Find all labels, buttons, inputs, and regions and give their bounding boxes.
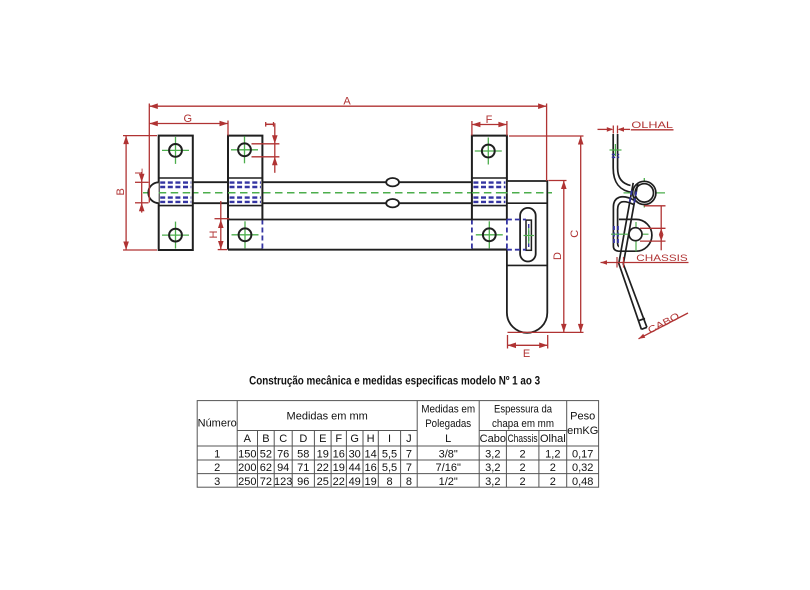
svg-text:7: 7	[406, 462, 412, 474]
svg-text:30: 30	[349, 448, 361, 460]
bolt rod	[193, 182, 472, 203]
svg-text:22: 22	[317, 462, 329, 474]
svg-text:3: 3	[214, 476, 220, 488]
svg-text:F: F	[335, 433, 342, 445]
dimension L	[134, 168, 149, 212]
chassis hole side view	[611, 222, 649, 252]
svg-text:I: I	[388, 433, 391, 445]
svg-text:E: E	[319, 433, 326, 445]
svg-text:8: 8	[406, 476, 412, 488]
svg-text:16: 16	[364, 462, 376, 474]
svg-text:D: D	[552, 252, 564, 260]
svg-text:16: 16	[333, 448, 345, 460]
dimension G	[149, 113, 228, 135]
svg-text:A: A	[244, 433, 252, 445]
data row 1	[214, 448, 593, 460]
svg-text:B: B	[262, 433, 269, 445]
svg-text:2: 2	[550, 462, 556, 474]
dimension F	[472, 114, 507, 135]
dimension D	[549, 181, 567, 333]
svg-text:19: 19	[317, 448, 329, 460]
flat bar	[228, 220, 507, 250]
dimension A	[149, 95, 546, 202]
rod knob hole upper	[386, 178, 399, 186]
svg-text:250: 250	[238, 476, 256, 488]
svg-text:2: 2	[214, 462, 220, 474]
guide plate P2	[228, 136, 262, 250]
cabo hidden segment	[629, 191, 636, 206]
svg-text:3,2: 3,2	[485, 462, 500, 474]
svg-text:E: E	[523, 348, 530, 360]
svg-text:5,5: 5,5	[382, 448, 397, 460]
svg-text:52: 52	[260, 448, 272, 460]
svg-text:0,32: 0,32	[572, 462, 593, 474]
svg-text:150: 150	[238, 448, 256, 460]
P2 bottom hole	[232, 221, 259, 248]
svg-text:F: F	[486, 114, 493, 126]
svg-text:emKG: emKG	[567, 425, 598, 437]
svg-text:H: H	[367, 433, 375, 445]
dimension I	[252, 122, 280, 173]
P2 top hole	[231, 136, 258, 163]
svg-text:chapa em mm: chapa em mm	[492, 418, 554, 430]
svg-text:1/2": 1/2"	[439, 476, 458, 488]
table grid	[197, 401, 598, 488]
flat bar hidden behind hasp	[507, 220, 526, 250]
svg-text:7/16": 7/16"	[436, 462, 461, 474]
svg-text:C: C	[279, 433, 287, 445]
header Peso emKG	[567, 411, 598, 438]
svg-text:5,5: 5,5	[382, 462, 397, 474]
svg-text:G: G	[350, 433, 359, 445]
dimension C	[508, 136, 584, 332]
svg-text:2: 2	[520, 448, 526, 460]
svg-text:76: 76	[277, 448, 289, 460]
svg-text:L: L	[134, 168, 146, 174]
svg-text:22: 22	[333, 476, 345, 488]
olhal strap side view	[613, 134, 635, 251]
svg-text:7: 7	[406, 448, 412, 460]
svg-text:3/8": 3/8"	[439, 448, 458, 460]
svg-text:Número: Número	[198, 417, 237, 429]
svg-text:Cabo: Cabo	[480, 433, 506, 445]
data row 3	[214, 476, 593, 488]
subheader letters	[244, 433, 566, 445]
svg-text:H: H	[208, 230, 220, 238]
cabo handle side view	[619, 183, 647, 329]
rod dome tip	[148, 182, 158, 203]
svg-text:14: 14	[364, 448, 376, 460]
svg-text:25: 25	[317, 476, 329, 488]
svg-text:Espessura da: Espessura da	[494, 404, 553, 416]
svg-text:Chassis: Chassis	[508, 433, 538, 445]
svg-text:200: 200	[238, 462, 256, 474]
P1 bottom hole	[162, 222, 189, 249]
rod cross-section in olhal	[624, 178, 666, 208]
svg-text:19: 19	[364, 476, 376, 488]
svg-text:Olhal: Olhal	[540, 433, 566, 445]
svg-text:Polegadas: Polegadas	[425, 418, 471, 430]
svg-text:71: 71	[297, 462, 309, 474]
svg-text:94: 94	[277, 462, 289, 474]
svg-text:Construção mecânica e medidas: Construção mecânica e medidas especifica…	[249, 374, 540, 388]
svg-text:49: 49	[349, 476, 361, 488]
svg-text:2: 2	[520, 462, 526, 474]
svg-text:1: 1	[214, 448, 220, 460]
svg-text:C: C	[569, 230, 581, 238]
svg-text:44: 44	[349, 462, 361, 474]
hasp plate	[507, 181, 547, 333]
svg-text:Medidas em: Medidas em	[421, 404, 475, 416]
svg-text:72: 72	[260, 476, 272, 488]
bar end seen through slot	[524, 220, 535, 250]
chassis hidden lines	[614, 226, 618, 244]
label OLHAL	[631, 120, 674, 131]
svg-text:Medidas em mm: Medidas em mm	[287, 411, 368, 423]
svg-text:2: 2	[520, 476, 526, 488]
dimension B	[115, 136, 157, 250]
svg-text:58: 58	[297, 448, 309, 460]
rod centerline	[143, 192, 552, 194]
chassis bracket side view	[619, 219, 652, 251]
hasp slot	[520, 208, 536, 262]
dimension E	[508, 335, 548, 360]
svg-text:96: 96	[297, 476, 309, 488]
svg-text:0,48: 0,48	[572, 476, 593, 488]
data row 2	[214, 462, 593, 474]
svg-text:19: 19	[333, 462, 345, 474]
rod knob hole lower	[386, 199, 399, 207]
svg-text:3,2: 3,2	[485, 448, 500, 460]
olhal strap hole hidden lines	[610, 144, 622, 157]
svg-text:62: 62	[260, 462, 272, 474]
P3 top hole	[475, 138, 502, 165]
label CHASSIS	[601, 253, 689, 268]
svg-text:3,2: 3,2	[485, 476, 500, 488]
svg-text:B: B	[115, 188, 127, 195]
svg-text:L: L	[445, 433, 451, 445]
header Espessura da chapa em mm	[492, 404, 554, 431]
centerline across hasp	[500, 192, 552, 194]
svg-text:A: A	[343, 95, 351, 107]
svg-text:J: J	[406, 433, 412, 445]
header Medidas em Polegadas	[421, 404, 475, 431]
dimension H	[208, 201, 230, 250]
svg-text:8: 8	[386, 476, 392, 488]
svg-text:2: 2	[550, 476, 556, 488]
P1 top hole	[162, 137, 189, 164]
guide plate P3	[472, 136, 507, 250]
P3 bottom hole	[476, 221, 503, 248]
svg-text:D: D	[299, 433, 307, 445]
guide plate P1	[159, 136, 193, 250]
chassis side dimension	[640, 206, 666, 251]
svg-text:123: 123	[274, 476, 292, 488]
olhal thickness dimension	[598, 126, 631, 134]
svg-text:G: G	[184, 113, 193, 125]
svg-text:0,17: 0,17	[572, 448, 593, 460]
svg-text:1,2: 1,2	[545, 448, 560, 460]
label CABO	[639, 311, 689, 339]
svg-text:Peso: Peso	[570, 411, 595, 423]
